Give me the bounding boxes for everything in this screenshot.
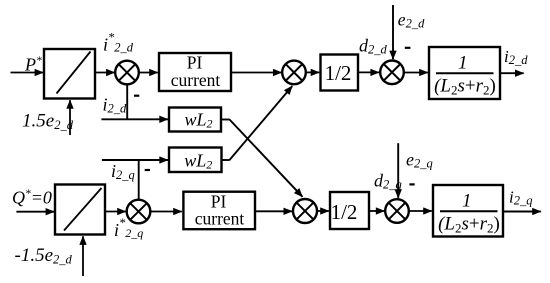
svg-text:-1.5e2_d: -1.5e2_d [15, 245, 73, 267]
svg-text:wL2: wL2 [184, 151, 212, 172]
wire S2 to 1/2 block (top) [306, 71, 320, 73]
wire Q* input arrow [16, 211, 54, 213]
minus sign at S3q [409, 183, 414, 185]
svg-text:i2_d: i2_d [103, 94, 128, 115]
wire S2q to 1/2 block (bottom) [317, 210, 329, 212]
minus sign at S3 [405, 47, 411, 49]
block PI current (d-axis) [159, 53, 231, 91]
wire P* input arrow [11, 72, 44, 74]
wire wL2 top cross diagonal to S2q [230, 120, 303, 197]
wire i_2_q feedback vertical into S1q [138, 160, 140, 200]
svg-text:current: current [195, 208, 245, 228]
wire wL2 top elbow [221, 119, 230, 121]
wire 1/2 to summing junction S3q [369, 210, 384, 212]
summing junction S3q (q-axis output) [385, 199, 409, 223]
svg-text:1/2: 1/2 [325, 61, 352, 85]
wire 1/2 to summing junction S3 [358, 71, 379, 73]
wire PI current (q) to summing junction S2q [255, 210, 292, 212]
wire PI current (d) to summing junction S2 [231, 72, 282, 74]
wire e_2_d down-arrow into S3 [392, 5, 394, 59]
svg-text:i2_q: i2_q [509, 187, 532, 207]
svg-text:current: current [171, 70, 221, 90]
block wL2 (top) [169, 108, 221, 132]
svg-text:i2_d: i2_d [504, 47, 528, 67]
divider block (Q path) [55, 185, 105, 235]
block 1/2 (top) [321, 55, 359, 91]
wire 1.5e_2_d up-arrow into divider [69, 100, 71, 135]
svg-text:d2_d: d2_d [359, 35, 388, 56]
wire S1 to PI current (d) [139, 72, 158, 74]
svg-text:e2_q: e2_q [406, 150, 433, 171]
svg-text:1/2: 1/2 [331, 200, 358, 224]
wire wL2 bottom elbow [222, 159, 230, 161]
svg-text:(L2s+r2): (L2s+r2) [438, 214, 500, 236]
svg-text:P*: P* [24, 55, 42, 75]
wire divider to summing junction S1q [105, 211, 126, 213]
minus sign at S1 [134, 95, 139, 97]
summing junction S3 (d-axis output) [380, 61, 404, 85]
svg-text:1.5e2_d: 1.5e2_d [22, 110, 74, 132]
wire i_2_d feed line into wL2 (top) [101, 118, 167, 120]
wire -1.5e_2_d up-arrow into divider [82, 236, 84, 276]
wire S3 to plant block (d) [404, 72, 428, 74]
wire wL2 bottom cross diagonal to S2 [230, 86, 293, 160]
summing junction S1q (q-axis error) [127, 200, 151, 224]
svg-text:i*2_d: i*2_d [103, 31, 134, 55]
svg-text:1: 1 [462, 191, 472, 212]
svg-text:(L2s+r2): (L2s+r2) [434, 76, 496, 98]
minus sign at i_2_q tap [145, 169, 150, 171]
svg-text:Q*=0: Q*=0 [12, 188, 52, 208]
summing junction S2q (q-axis) [293, 199, 317, 223]
summing junction S2 (d-axis) [282, 61, 306, 85]
block 1/2 (bottom) [330, 192, 369, 229]
wire i_2_q output arrow [503, 211, 541, 213]
svg-text:wL2: wL2 [185, 109, 213, 130]
wire divider to summing junction S1 [95, 72, 115, 74]
svg-text:e2_d: e2_d [398, 10, 425, 31]
wire i_2_d output arrow [500, 72, 524, 74]
wire i_2_q feed line into wL2 (bottom) [102, 159, 168, 161]
svg-text:1: 1 [458, 53, 468, 74]
block wL2 (bottom) [169, 148, 222, 173]
wire S3q to plant block (q) [409, 210, 432, 212]
wire S1q to PI current (q) [150, 211, 182, 213]
block 1/(L2s+r2) (q-axis plant) [433, 185, 503, 237]
divider block (P path) [44, 49, 95, 99]
wire i_2_d feedback vertical into S1 [126, 84, 128, 119]
wire e_2_q down-arrow into S3q [397, 143, 399, 198]
svg-text:i2_q: i2_q [111, 161, 135, 182]
block 1/(L2s+r2) (d-axis plant) [429, 47, 500, 99]
summing junction S1 (d-axis error) [115, 61, 139, 85]
block PI current (q-axis) [183, 191, 255, 229]
